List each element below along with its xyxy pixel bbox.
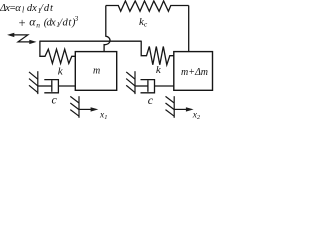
svg-text:/dt): /dt) — [58, 18, 76, 29]
ground reference x1 — [70, 96, 98, 118]
wire from k_c to mass m+dm — [188, 6, 190, 52]
wire W1 (shaker rail) — [40, 40, 141, 42]
coupling spring k_c bridge — [106, 1, 189, 11]
mass m+dm box — [174, 52, 213, 91]
svg-text:(dx: (dx — [44, 18, 56, 29]
mass m box — [75, 52, 116, 91]
svg-text:Δx=α: Δx=α — [0, 3, 21, 14]
svg-text:x2: x2 — [192, 111, 201, 120]
svg-text:l: l — [22, 5, 25, 14]
svg-text:dx: dx — [27, 3, 37, 14]
ground reference x2 — [166, 96, 194, 118]
left wall — [29, 71, 38, 94]
wire from k_c to mass m with hop over W1 — [104, 6, 110, 52]
svg-text:/dt: /dt — [39, 3, 54, 14]
svg-text:k: k — [156, 64, 162, 76]
equation line 2 — [18, 14, 79, 30]
svg-text:3: 3 — [74, 14, 79, 23]
svg-text:n: n — [36, 20, 40, 29]
right wall — [126, 71, 135, 94]
svg-text:k: k — [58, 66, 64, 78]
svg-text:α: α — [29, 15, 36, 29]
excitation arrow symbol — [7, 33, 36, 44]
damper c (right) — [135, 80, 174, 93]
svg-text:x1: x1 — [99, 111, 107, 120]
svg-text:m+Δm: m+Δm — [181, 67, 208, 78]
equation line 1 — [0, 3, 54, 15]
svg-text:kc: kc — [139, 16, 148, 29]
svg-text:m: m — [93, 66, 100, 77]
damper c (left) — [38, 80, 76, 93]
svg-text:c: c — [52, 93, 58, 107]
svg-text:+: + — [18, 16, 26, 30]
svg-text:c: c — [148, 93, 154, 107]
spring k (middle) with hanger from W1 — [141, 41, 174, 65]
spring k (left) with hanger bracket — [40, 41, 75, 64]
